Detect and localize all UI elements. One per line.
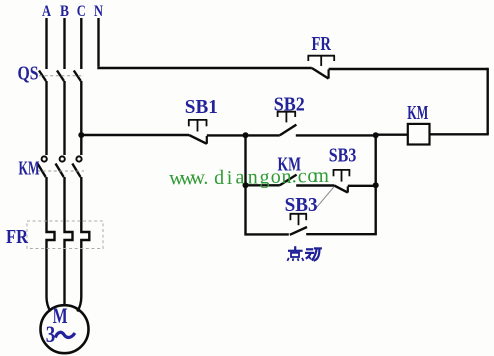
svg-text:N: N xyxy=(94,3,103,20)
svg-text:SB3: SB3 xyxy=(329,146,357,167)
svg-text:3: 3 xyxy=(46,322,56,347)
svg-text:SB1: SB1 xyxy=(185,97,218,118)
svg-text:www.diangon.com: www.diangon.com xyxy=(169,165,329,190)
svg-text:FR: FR xyxy=(312,34,332,55)
svg-text:QS: QS xyxy=(18,64,39,85)
svg-text:FR: FR xyxy=(6,227,29,248)
svg-text:SB3: SB3 xyxy=(285,195,318,216)
svg-text:C: C xyxy=(77,3,86,20)
svg-text:SB2: SB2 xyxy=(274,94,305,115)
svg-text:KM: KM xyxy=(407,103,428,124)
svg-text:KM: KM xyxy=(19,158,40,179)
svg-text:A: A xyxy=(42,3,51,20)
svg-text:B: B xyxy=(60,3,69,20)
